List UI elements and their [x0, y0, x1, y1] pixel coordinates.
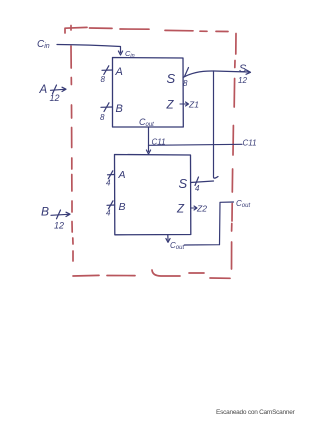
svg-text:A: A [115, 66, 123, 78]
adder U1 (8-bit block) [113, 58, 184, 128]
svg-text:8: 8 [101, 75, 106, 84]
wire/arrow A into boundary [51, 85, 67, 94]
svg-text:Cin: Cin [37, 39, 50, 50]
svg-text:8: 8 [100, 113, 105, 122]
svg-text:Cout: Cout [170, 241, 184, 251]
CamScanner watermark [216, 409, 300, 416]
red dashed boundary top side [65, 27, 228, 33]
svg-text:Z2: Z2 [196, 204, 207, 214]
svg-text:B: B [41, 205, 49, 219]
svg-text:4: 4 [106, 179, 111, 188]
red dashed boundary right side [232, 34, 237, 270]
svg-text:S: S [239, 63, 247, 75]
svg-text:Z: Z [166, 100, 175, 112]
wire/arrow output Z2 [191, 206, 197, 210]
wire Cout to border [185, 202, 234, 245]
svg-text:12: 12 [50, 93, 60, 103]
adder U2 (4-bit block) [115, 155, 191, 235]
svg-text:12: 12 [54, 221, 64, 231]
wire Cout out of U2 bottom [166, 235, 170, 243]
svg-text:C11: C11 [243, 139, 257, 148]
wire/arrow B into boundary [51, 210, 70, 219]
svg-text:A: A [118, 169, 126, 181]
red dashed boundary left side [71, 26, 73, 262]
wire Cin to U1 top [57, 45, 123, 56]
svg-text:Z: Z [176, 204, 185, 216]
wire input B of U1 [101, 103, 113, 112]
svg-text:B: B [119, 201, 126, 213]
wire input B of U2 [107, 201, 115, 209]
svg-text:8: 8 [183, 79, 188, 88]
wire carry C11 from U1 bottom to U2 top [146, 128, 150, 155]
svg-text:Z1: Z1 [188, 100, 199, 110]
svg-text:B: B [116, 103, 123, 115]
wire input A of U1 [102, 66, 113, 75]
wire input A of U2 [108, 171, 115, 179]
svg-text:S: S [179, 176, 188, 191]
red dashed boundary bottom side [73, 270, 230, 278]
wire output S of U1 [183, 68, 251, 78]
svg-text:12: 12 [238, 76, 247, 85]
svg-text:Cout: Cout [139, 117, 154, 128]
svg-text:S: S [167, 71, 176, 86]
svg-text:A: A [39, 84, 48, 96]
wire/arrow output Z1 [180, 102, 189, 106]
wire C11 to border [149, 144, 243, 145]
svg-text:Cout: Cout [236, 199, 250, 209]
svg-text:4: 4 [106, 209, 111, 218]
svg-text:4: 4 [195, 184, 200, 193]
wire output S of U2 joining S bus [191, 71, 219, 186]
